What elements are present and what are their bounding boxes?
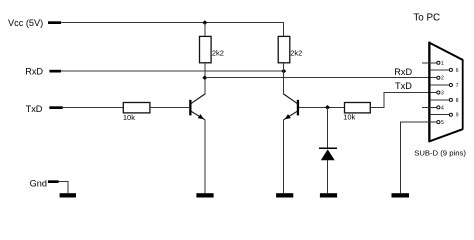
svg-text:10k: 10k <box>343 113 355 122</box>
svg-text:1: 1 <box>441 61 444 67</box>
transistor Q1 base bar <box>189 100 191 116</box>
terminal stub Vcc <box>48 21 61 24</box>
transistor Q2 collector diagonal <box>284 94 298 103</box>
svg-text:10k: 10k <box>123 113 135 122</box>
resistor R4 10k <box>345 103 371 113</box>
wire RxD left net <box>61 70 284 72</box>
svg-text:8: 8 <box>456 98 459 104</box>
wire R2 bottom lead / Q2 collector <box>283 63 285 95</box>
ground bar at Gnd terminal <box>60 193 76 197</box>
svg-text:To PC: To PC <box>413 12 440 23</box>
connector SUB-D right edge <box>462 59 464 129</box>
svg-text:SUB-D (9 pins): SUB-D (9 pins) <box>414 149 466 158</box>
wire Q2 emitter to ground <box>283 119 285 193</box>
pin 5 wire to ground <box>400 122 437 193</box>
connector SUB-D top edge <box>429 43 463 60</box>
resistor R3 10k <box>123 103 150 113</box>
ground bar under Q1 <box>196 193 213 197</box>
svg-text:4: 4 <box>441 105 444 111</box>
diode D1 cathode bar <box>319 147 337 149</box>
pin 6 circle <box>449 68 452 71</box>
pin 7 circle <box>449 83 452 86</box>
pin 9 circle <box>449 113 452 116</box>
resistor R1 2k2 <box>200 36 212 62</box>
transistor Q1 emitter arrow <box>198 114 204 119</box>
junction node Q2 base / diode / R4 <box>325 105 330 110</box>
svg-text:TxD: TxD <box>26 104 43 114</box>
pin 1 circle <box>437 61 440 64</box>
wire R3 to Q1 base <box>150 107 189 109</box>
wire R2 top lead <box>283 23 285 37</box>
wire TxD to R3 <box>63 107 124 109</box>
wire Vcc top rail <box>61 22 284 24</box>
pin 6 stub <box>430 69 449 71</box>
terminal stub Gnd <box>48 180 59 183</box>
pin 9 stub <box>430 114 449 116</box>
connector SUB-D left edge <box>428 42 430 143</box>
svg-text:6: 6 <box>456 68 459 74</box>
svg-text:3: 3 <box>441 91 444 97</box>
wire Q1 emitter to ground <box>204 119 206 193</box>
wire net to connector pin 2 (PC RxD) <box>205 77 437 79</box>
svg-text:5: 5 <box>441 120 444 126</box>
wire R1 bottom lead / Q1 collector <box>204 63 206 95</box>
junction node on Vcc rail at R1 <box>202 20 207 25</box>
wire Gnd to ground symbol <box>59 182 68 194</box>
terminal stub TxD <box>49 106 62 109</box>
pin 8 stub <box>430 99 449 101</box>
transistor Q2 emitter arrow <box>285 114 291 119</box>
svg-text:7: 7 <box>456 83 459 89</box>
pin 8 circle <box>449 98 452 101</box>
svg-text:RxD: RxD <box>25 67 43 77</box>
ground bar under diode <box>320 193 337 197</box>
svg-text:2k2: 2k2 <box>212 48 224 57</box>
pin 4 circle <box>437 106 440 109</box>
ground bar under Q2 <box>276 193 293 197</box>
connector SUB-D bottom edge <box>429 129 463 141</box>
svg-text:2k2: 2k2 <box>290 48 302 57</box>
diode D1 triangle <box>321 149 335 160</box>
pin 1 stub <box>422 62 437 64</box>
junction node Q1 collector to PC RxD <box>202 75 207 80</box>
wire diode top lead <box>327 107 329 148</box>
resistor R2 2k2 <box>278 36 290 62</box>
transistor Q1 emitter diagonal <box>191 111 205 119</box>
wire Q2 base to R4 <box>299 106 344 108</box>
svg-text:Gnd: Gnd <box>30 178 47 188</box>
svg-text:Vcc (5V): Vcc (5V) <box>8 18 43 28</box>
transistor Q2 emitter diagonal <box>284 111 298 119</box>
wire diode bottom lead <box>327 160 329 193</box>
transistor Q1 collector diagonal <box>191 94 205 103</box>
wire R1 top lead <box>204 23 206 37</box>
terminal stub RxD <box>49 70 61 73</box>
pin 3 circle <box>437 91 440 94</box>
pin 5 circle <box>437 121 440 124</box>
svg-text:RxD: RxD <box>394 67 412 77</box>
pin 4 stub <box>422 106 437 108</box>
svg-text:9: 9 <box>456 113 459 119</box>
pin 7 stub <box>430 84 449 86</box>
svg-text:TxD: TxD <box>395 81 412 91</box>
svg-text:2: 2 <box>441 76 444 82</box>
ground bar under connector pin 5 <box>392 193 410 197</box>
junction node RxD at Q2 collector <box>281 69 286 74</box>
wire R4 to TxD corner <box>370 93 437 108</box>
pin 2 circle <box>437 76 440 79</box>
transistor Q2 base bar <box>297 100 299 116</box>
